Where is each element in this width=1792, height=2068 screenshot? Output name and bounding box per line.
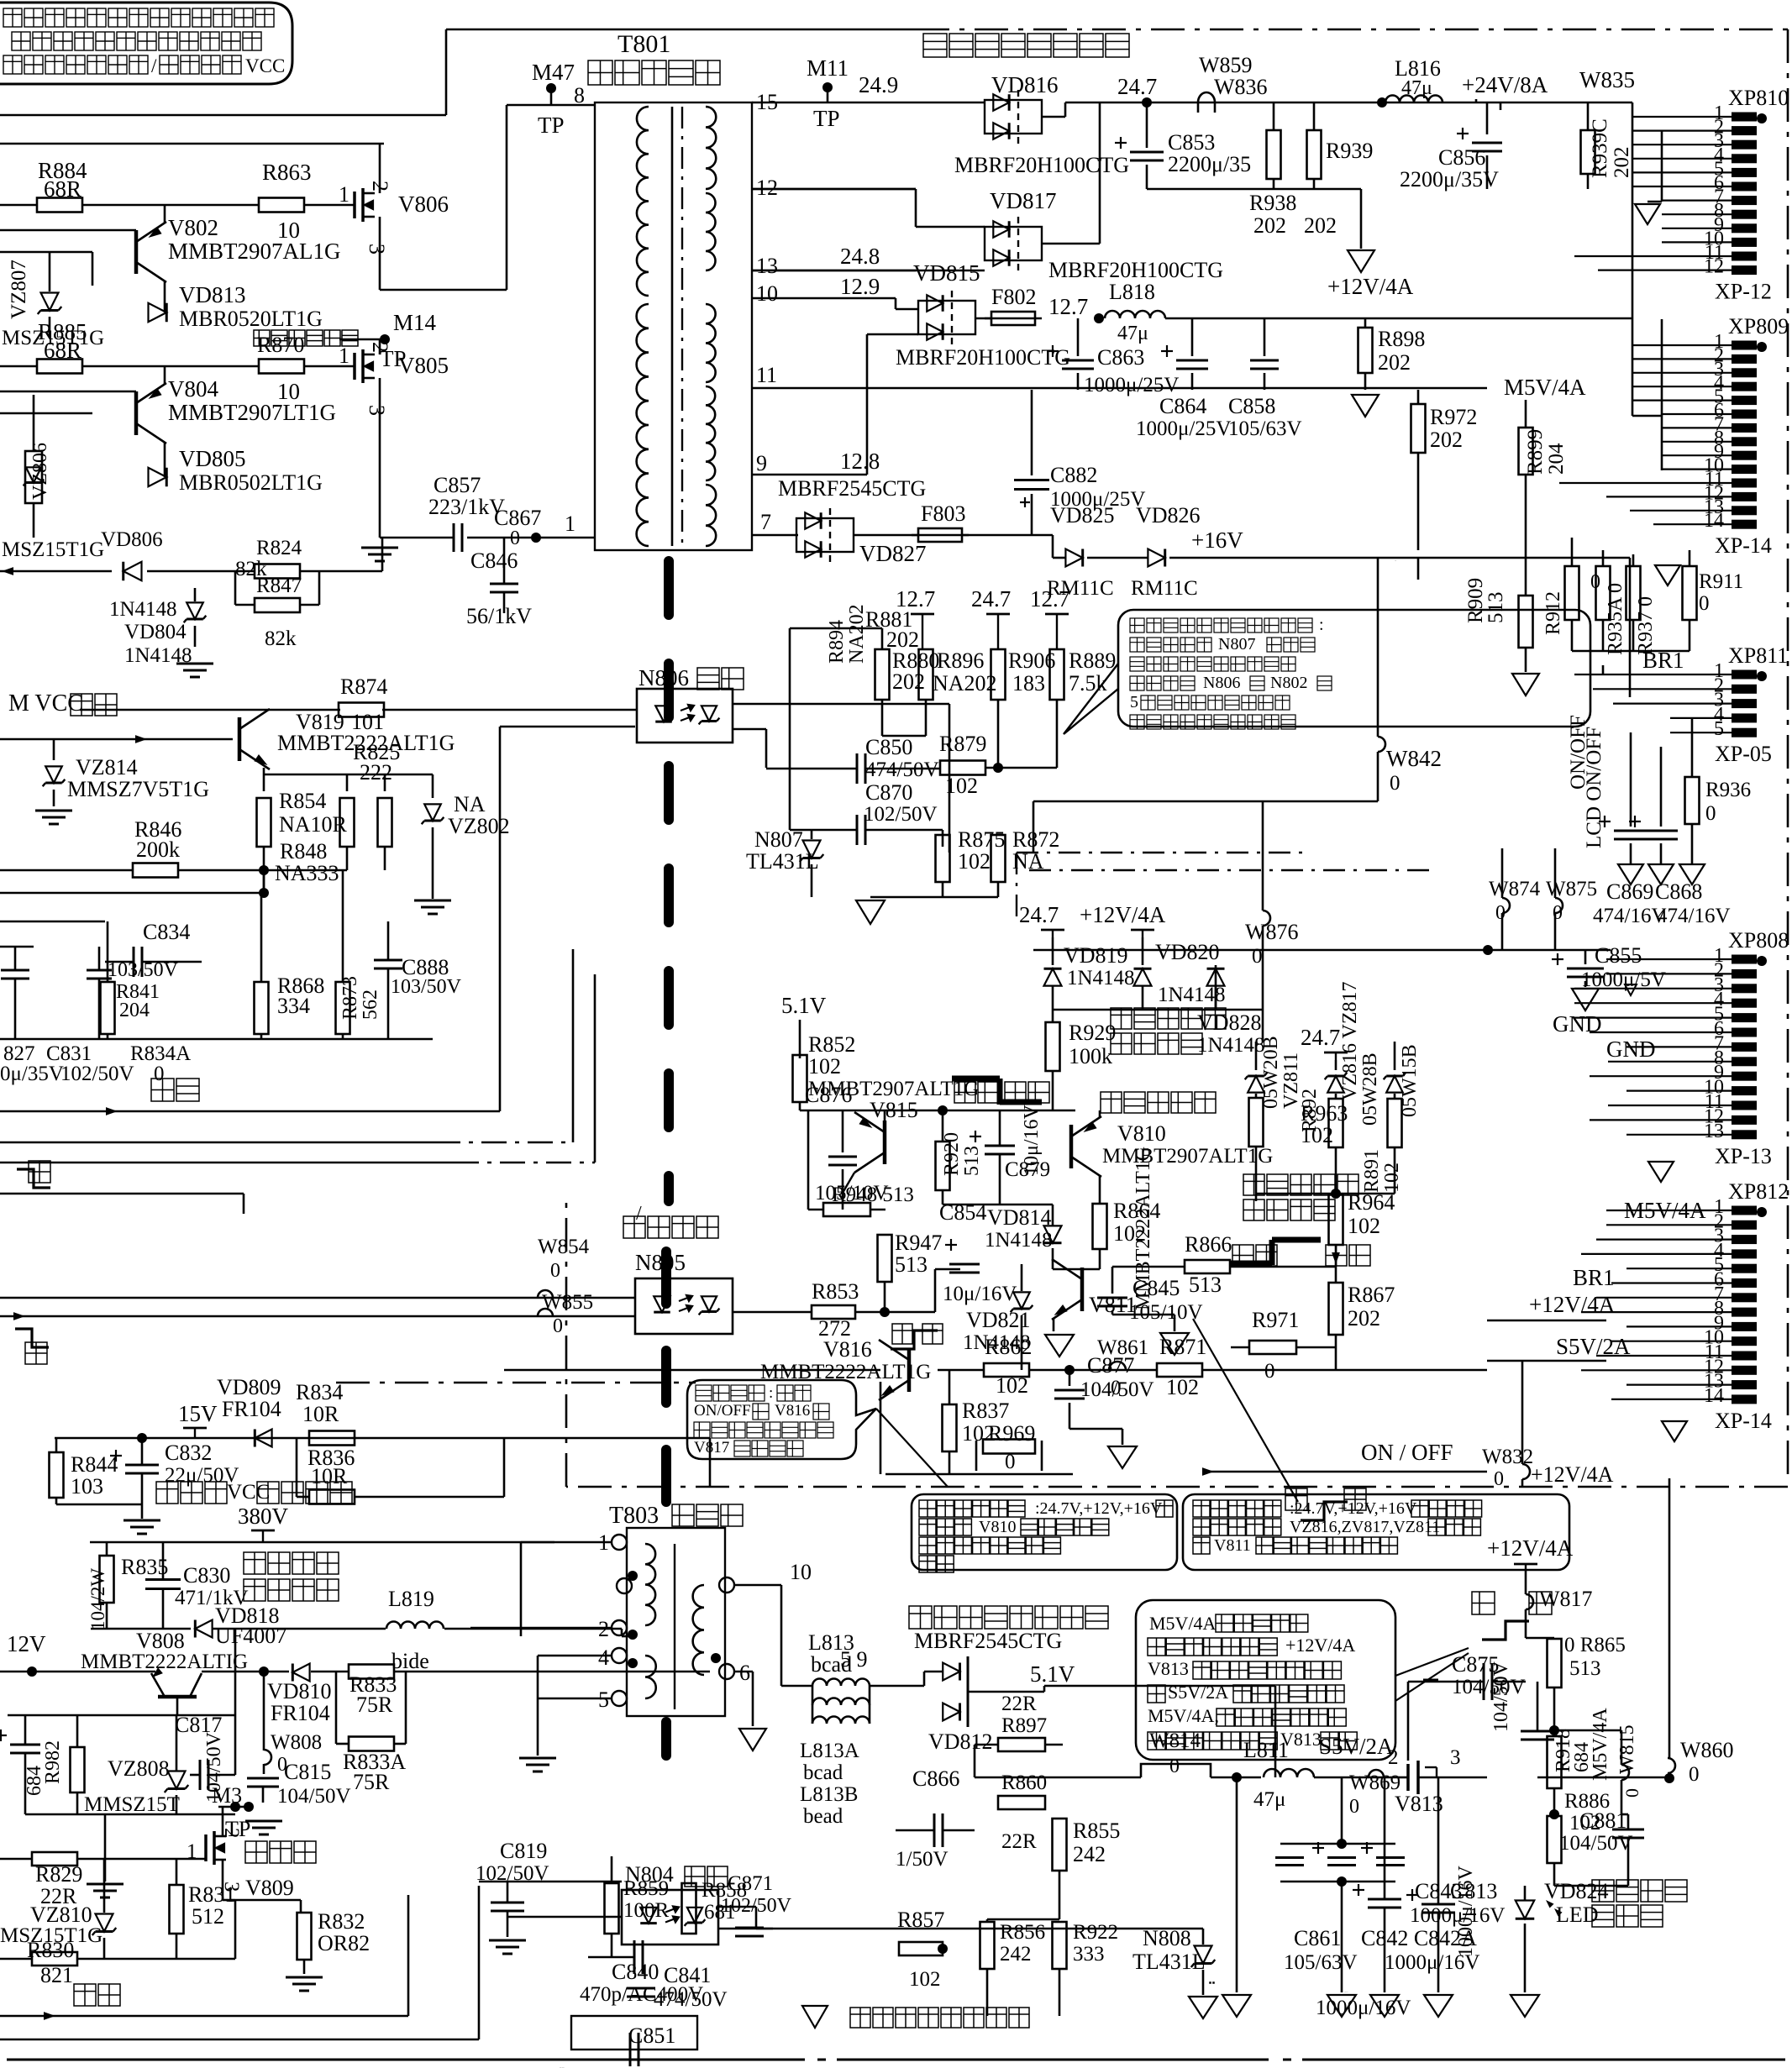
svg-text:VD809: VD809 <box>217 1375 281 1399</box>
svg-text:R872: R872 <box>1012 827 1059 852</box>
svg-text:104/50V: 104/50V <box>1490 1661 1512 1732</box>
svg-text:102/50V: 102/50V <box>864 803 938 826</box>
svg-text:MMSZ15T: MMSZ15T <box>84 1793 180 1816</box>
svg-text:M5V/4A: M5V/4A <box>1590 1708 1611 1781</box>
svg-text:103/50V: 103/50V <box>391 976 462 998</box>
svg-text:R936: R936 <box>1705 779 1751 801</box>
svg-text:R922: R922 <box>1073 1921 1118 1944</box>
svg-text:104/50V: 104/50V <box>277 1785 351 1808</box>
svg-text:C850: C850 <box>865 735 912 759</box>
svg-text:W836: W836 <box>1214 75 1268 99</box>
svg-text:5: 5 <box>598 1687 609 1712</box>
svg-text:14: 14 <box>1704 1385 1724 1407</box>
svg-text:VCC: VCC <box>245 55 285 76</box>
svg-text:S5V/2A: S5V/2A <box>1556 1334 1631 1359</box>
svg-text:C868: C868 <box>1655 879 1702 904</box>
svg-text:C856: C856 <box>1438 145 1485 170</box>
svg-text:1N4148: 1N4148 <box>1067 967 1135 989</box>
svg-text:1000μ/16V: 1000μ/16V <box>1344 1992 1348 1993</box>
svg-text:R892: R892 <box>1299 1089 1321 1132</box>
svg-text:513: 513 <box>895 1252 928 1277</box>
svg-text:242: 242 <box>1073 1842 1106 1866</box>
svg-text:M5V/4A: M5V/4A <box>1504 375 1586 400</box>
svg-text:M14: M14 <box>393 310 437 335</box>
svg-text:C863: C863 <box>1097 345 1144 370</box>
svg-text:474/50V: 474/50V <box>865 758 939 781</box>
svg-text:12.8: 12.8 <box>840 449 880 474</box>
svg-text:10μ/16V: 10μ/16V <box>1021 1104 1043 1176</box>
svg-text:3: 3 <box>365 244 389 255</box>
svg-text:204: 204 <box>1545 443 1568 475</box>
svg-text:R972: R972 <box>1430 405 1477 429</box>
svg-text:183: 183 <box>1012 671 1045 695</box>
svg-text:22R: 22R <box>1001 1693 1037 1715</box>
svg-text:14: 14 <box>1704 510 1724 532</box>
svg-text:C871: C871 <box>728 1872 773 1895</box>
svg-text:512: 512 <box>192 1904 224 1929</box>
svg-text:100R: 100R <box>623 1899 670 1922</box>
svg-text:ON/OFF: ON/OFF <box>694 1402 751 1420</box>
svg-text:M11: M11 <box>807 55 849 81</box>
svg-text:10μ/16V: 10μ/16V <box>943 1283 1017 1305</box>
svg-text:5.1V: 5.1V <box>1030 1661 1075 1687</box>
svg-text:513: 513 <box>1485 592 1507 624</box>
svg-text:VD820: VD820 <box>1155 940 1220 964</box>
svg-text:MBR0520LT1G: MBR0520LT1G <box>179 307 323 331</box>
svg-text:0: 0 <box>1494 1468 1504 1490</box>
svg-text::: : <box>769 1384 773 1402</box>
svg-text:N807: N807 <box>754 827 803 852</box>
svg-text:380V: 380V <box>238 1504 289 1529</box>
svg-text:V809: V809 <box>245 1876 294 1900</box>
svg-text:+12V/4A: +12V/4A <box>1080 902 1166 927</box>
svg-text:VD814: VD814 <box>987 1205 1052 1230</box>
svg-text:V802: V802 <box>168 215 218 240</box>
svg-text:N806: N806 <box>1203 674 1240 692</box>
svg-text::24.7V,+12V,+16V: :24.7V,+12V,+16V <box>1290 1499 1417 1518</box>
svg-text:R824: R824 <box>256 537 302 559</box>
svg-text:12V: 12V <box>7 1631 46 1656</box>
svg-text:104/50V: 104/50V <box>1559 1832 1633 1855</box>
svg-text:1000μ/25V: 1000μ/25V <box>1136 417 1231 440</box>
svg-text:R871: R871 <box>1159 1335 1206 1359</box>
svg-text:100k: 100k <box>1069 1044 1112 1068</box>
svg-text:102/50V: 102/50V <box>60 1063 134 1085</box>
svg-text:L813B: L813B <box>800 1783 858 1806</box>
svg-text:+16V: +16V <box>1191 527 1243 553</box>
svg-text:R894: R894 <box>826 620 848 664</box>
svg-text:N807: N807 <box>1218 635 1255 653</box>
svg-text:56/1kV: 56/1kV <box>466 604 532 628</box>
svg-text:+12V/4A: +12V/4A <box>1285 1635 1355 1656</box>
svg-text:V813: V813 <box>1395 1792 1443 1816</box>
svg-text:R866: R866 <box>1185 1232 1232 1257</box>
svg-text:334: 334 <box>277 994 310 1018</box>
svg-text:XP-05: XP-05 <box>1715 742 1772 766</box>
svg-text:R855: R855 <box>1073 1819 1120 1843</box>
svg-text:R909: R909 <box>1464 578 1487 623</box>
svg-text:C853: C853 <box>1168 130 1215 155</box>
svg-text:+12V/4A: +12V/4A <box>1487 1535 1574 1561</box>
svg-text:/: / <box>151 55 157 76</box>
svg-text:VCC: VCC <box>227 1481 270 1504</box>
svg-text:V806: V806 <box>398 192 449 217</box>
svg-text:V804: V804 <box>168 376 218 402</box>
svg-text:R937 0: R937 0 <box>1635 596 1657 655</box>
svg-text:103/50V: 103/50V <box>108 959 179 981</box>
svg-text:VZ808: VZ808 <box>108 1756 170 1781</box>
svg-text:821: 821 <box>40 1963 73 1987</box>
svg-text:VD819: VD819 <box>1064 943 1128 968</box>
svg-text:XP-14: XP-14 <box>1715 1409 1772 1433</box>
svg-text:C877: C877 <box>1087 1353 1134 1378</box>
svg-text:0: 0 <box>550 1260 560 1282</box>
svg-text:1N4148: 1N4148 <box>985 1229 1053 1252</box>
svg-text:LCD ON/OFF: LCD ON/OFF <box>1583 727 1605 848</box>
svg-text:R863: R863 <box>262 160 312 185</box>
svg-text:102: 102 <box>945 774 978 798</box>
svg-text:L819: L819 <box>388 1587 434 1611</box>
svg-text:L813: L813 <box>808 1630 854 1655</box>
svg-text:R867: R867 <box>1348 1283 1395 1307</box>
svg-text:VD827: VD827 <box>859 541 927 566</box>
svg-text:C857: C857 <box>434 473 481 497</box>
svg-text:R929: R929 <box>1069 1021 1116 1045</box>
svg-text:V805: V805 <box>398 353 449 378</box>
svg-text:R853: R853 <box>812 1279 859 1304</box>
svg-text:102/50V: 102/50V <box>721 1895 792 1917</box>
svg-text:S5V/2A: S5V/2A <box>1319 1734 1394 1759</box>
svg-text:102: 102 <box>996 1373 1028 1398</box>
svg-text:MBRF20H100CTG: MBRF20H100CTG <box>896 345 1070 370</box>
svg-text:2200μ/35V: 2200μ/35V <box>1400 167 1499 192</box>
svg-text:+12V/4A: +12V/4A <box>1529 1292 1616 1317</box>
svg-text:1N4148: 1N4148 <box>1197 1034 1265 1057</box>
svg-text:ON / OFF: ON / OFF <box>1361 1440 1453 1465</box>
svg-text:0: 0 <box>1705 802 1716 825</box>
svg-text:202: 202 <box>1253 213 1286 238</box>
svg-text:0: 0 <box>510 527 520 549</box>
svg-text:XP809: XP809 <box>1728 314 1789 339</box>
svg-text:C834: C834 <box>143 920 190 944</box>
svg-text:NA202: NA202 <box>933 671 997 695</box>
svg-text:V811: V811 <box>1214 1536 1251 1555</box>
svg-text:24.8: 24.8 <box>840 244 880 269</box>
svg-text:R899: R899 <box>1524 429 1547 475</box>
svg-text:W835: W835 <box>1579 67 1635 92</box>
svg-text:C854: C854 <box>939 1200 986 1225</box>
svg-text:242: 242 <box>1000 1943 1032 1966</box>
svg-text:12: 12 <box>756 176 778 200</box>
svg-text:8: 8 <box>574 83 585 108</box>
svg-text:W859: W859 <box>1199 53 1253 77</box>
svg-text:7: 7 <box>760 510 771 534</box>
svg-text:47μ: 47μ <box>1117 323 1148 344</box>
svg-text:RM11C: RM11C <box>1131 577 1198 600</box>
svg-text:/: / <box>636 1203 642 1225</box>
svg-text:10R: 10R <box>302 1402 339 1426</box>
svg-text:R912: R912 <box>1542 591 1564 635</box>
svg-text:R874: R874 <box>340 674 387 699</box>
svg-text:513: 513 <box>1569 1657 1601 1680</box>
svg-text:R939: R939 <box>1326 139 1373 163</box>
svg-text:BR1: BR1 <box>1573 1265 1615 1290</box>
svg-text:FR104: FR104 <box>271 1701 330 1725</box>
svg-text:474/16V: 474/16V <box>1593 905 1667 927</box>
svg-text:L813A: L813A <box>800 1740 859 1762</box>
svg-text:bcad: bcad <box>803 1761 843 1784</box>
svg-text:XP812: XP812 <box>1728 1179 1789 1204</box>
svg-text:W814: W814 <box>1149 1729 1201 1752</box>
svg-text:13: 13 <box>756 254 778 278</box>
svg-text:0: 0 <box>553 1315 563 1337</box>
svg-text:VD828: VD828 <box>1197 1010 1262 1035</box>
svg-text:VD826: VD826 <box>1136 503 1201 527</box>
svg-text:VD815: VD815 <box>913 260 980 286</box>
svg-text:MBRF2545CTG: MBRF2545CTG <box>914 1629 1062 1653</box>
svg-text:bcad: bcad <box>811 1652 852 1677</box>
svg-text:R898: R898 <box>1378 327 1425 351</box>
svg-text:0: 0 <box>1005 1451 1016 1473</box>
svg-text:C869: C869 <box>1606 879 1653 904</box>
svg-text:1: 1 <box>339 182 349 207</box>
svg-text:XP808: XP808 <box>1728 928 1789 953</box>
svg-text:MBRF20H100CTG: MBRF20H100CTG <box>954 153 1129 177</box>
svg-text:NA10R: NA10R <box>279 812 348 837</box>
svg-text:V810: V810 <box>1117 1121 1166 1146</box>
svg-text:2: 2 <box>598 1617 609 1641</box>
svg-text:513: 513 <box>961 1146 983 1176</box>
svg-text:102: 102 <box>909 1968 941 1991</box>
svg-text:1: 1 <box>339 344 349 368</box>
svg-text:GND: GND <box>1606 1037 1656 1062</box>
svg-text:R889: R889 <box>1069 648 1116 673</box>
svg-text:2200μ/35: 2200μ/35 <box>1168 152 1251 176</box>
svg-text:15V: 15V <box>178 1401 218 1426</box>
svg-text:1/50V: 1/50V <box>896 1848 949 1871</box>
svg-text:T801: T801 <box>617 30 670 58</box>
svg-text:13: 13 <box>1704 1121 1724 1142</box>
svg-text:684: 684 <box>24 1766 45 1796</box>
svg-text:V813: V813 <box>1148 1658 1189 1679</box>
svg-text:24.9: 24.9 <box>859 72 898 97</box>
svg-text:L818: L818 <box>1109 280 1155 304</box>
svg-text:N802: N802 <box>1270 674 1307 692</box>
svg-text:C882: C882 <box>1050 463 1097 487</box>
svg-text:W876: W876 <box>1245 920 1299 944</box>
svg-text:R969: R969 <box>988 1421 1035 1446</box>
svg-text:VD816: VD816 <box>991 72 1059 97</box>
svg-text:C815: C815 <box>284 1760 331 1784</box>
svg-text:R964: R964 <box>1348 1190 1395 1215</box>
svg-text:202: 202 <box>1348 1306 1380 1331</box>
svg-text:5: 5 <box>1714 718 1724 740</box>
svg-text:222: 222 <box>360 760 392 785</box>
svg-text:M5V/4A,: M5V/4A, <box>1148 1705 1219 1726</box>
svg-text:7.5k: 7.5k <box>1069 671 1107 695</box>
svg-text:V817: V817 <box>694 1439 729 1457</box>
svg-text:0: 0 <box>1590 571 1600 593</box>
svg-text:R837: R837 <box>962 1399 1009 1423</box>
svg-text:T803: T803 <box>609 1503 659 1529</box>
svg-text:0 R865: 0 R865 <box>1564 1634 1626 1656</box>
svg-text:474/50V: 474/50V <box>654 1988 728 2011</box>
svg-text:R911: R911 <box>1699 570 1743 593</box>
svg-text:R906: R906 <box>1008 648 1055 673</box>
svg-text:75R: 75R <box>353 1770 390 1794</box>
svg-text:3: 3 <box>365 405 389 416</box>
svg-text:W855: W855 <box>542 1291 593 1314</box>
svg-text:MBRF2545CTG: MBRF2545CTG <box>778 476 926 501</box>
svg-text:R939C: R939C <box>1589 118 1611 178</box>
svg-text:12.7: 12.7 <box>1030 586 1069 611</box>
svg-text:V808: V808 <box>136 1629 185 1653</box>
svg-text:F802: F802 <box>991 285 1036 309</box>
svg-text:C876: C876 <box>805 1083 852 1107</box>
svg-text:47μ: 47μ <box>1253 1788 1285 1811</box>
svg-text:0: 0 <box>1699 592 1710 615</box>
svg-text:1000μ/25V: 1000μ/25V <box>1084 374 1179 396</box>
svg-text:F803: F803 <box>921 501 965 526</box>
svg-text:R834: R834 <box>296 1380 343 1404</box>
svg-text:BR1: BR1 <box>1642 648 1684 673</box>
svg-text:VD805: VD805 <box>179 446 246 471</box>
svg-text:W854: W854 <box>538 1236 590 1258</box>
svg-text:102: 102 <box>1166 1375 1199 1399</box>
svg-text:105/63V: 105/63V <box>1228 417 1302 440</box>
svg-text:R854: R854 <box>279 789 326 813</box>
svg-text:827: 827 <box>3 1042 35 1065</box>
svg-text:24.7: 24.7 <box>1019 902 1059 927</box>
svg-text:104/2W: 104/2W <box>87 1568 108 1630</box>
svg-text:82k: 82k <box>265 627 297 650</box>
svg-text:C830: C830 <box>183 1563 230 1588</box>
svg-text:1N4148: 1N4148 <box>109 598 177 621</box>
svg-text:C846: C846 <box>470 548 518 573</box>
svg-text:R897: R897 <box>1001 1714 1047 1737</box>
svg-text:W817: W817 <box>1539 1587 1593 1611</box>
svg-text:C870: C870 <box>865 780 912 805</box>
svg-text:24.7: 24.7 <box>1301 1025 1340 1050</box>
svg-text:R920: R920 <box>941 1132 963 1176</box>
svg-text:R860: R860 <box>1001 1771 1047 1794</box>
svg-text:UF4007: UF4007 <box>215 1624 286 1648</box>
svg-text:75R: 75R <box>356 1693 393 1717</box>
svg-text:10: 10 <box>756 281 778 306</box>
svg-text:12.9: 12.9 <box>840 274 880 299</box>
svg-text:204: 204 <box>119 1000 150 1021</box>
svg-text:MMBT2222ALTIG: MMBT2222ALTIG <box>81 1651 248 1673</box>
svg-text:R834A: R834A <box>130 1042 191 1065</box>
svg-text:562: 562 <box>360 989 381 1020</box>
svg-text:333: 333 <box>1073 1943 1105 1966</box>
svg-text:202: 202 <box>1611 147 1633 179</box>
svg-text:103: 103 <box>71 1474 103 1499</box>
svg-text:XP-12: XP-12 <box>1715 280 1772 304</box>
svg-text:C841: C841 <box>664 1963 711 1987</box>
svg-text:FR104: FR104 <box>222 1397 281 1421</box>
svg-text:1000μ/16V: 1000μ/16V <box>1455 1865 1477 1957</box>
svg-text:0μ/35V: 0μ/35V <box>0 1063 64 1085</box>
svg-text:TP: TP <box>813 106 840 131</box>
svg-text:N805: N805 <box>635 1250 686 1275</box>
svg-text:C831: C831 <box>46 1042 92 1065</box>
svg-text:bide: bide <box>392 1649 429 1673</box>
svg-text:104/50V: 104/50V <box>1452 1676 1526 1698</box>
svg-text:68R: 68R <box>44 176 81 202</box>
svg-text:0: 0 <box>1252 945 1263 968</box>
svg-text:C832: C832 <box>165 1441 212 1465</box>
svg-text:C855: C855 <box>1595 943 1642 968</box>
svg-text:XP810: XP810 <box>1728 86 1789 110</box>
svg-text:N808: N808 <box>1143 1926 1191 1950</box>
svg-text:VD804: VD804 <box>124 621 187 643</box>
svg-text:TL431L: TL431L <box>1132 1950 1206 1974</box>
svg-text:R870: R870 <box>257 333 304 357</box>
svg-text:9: 9 <box>756 451 767 475</box>
svg-text:200k: 200k <box>136 837 180 862</box>
svg-text:C864: C864 <box>1159 394 1206 418</box>
svg-text:2: 2 <box>368 342 392 353</box>
svg-text:VZ816 VZ817: VZ816 VZ817 <box>1339 981 1361 1100</box>
svg-text::24.7V,+12V,+16V: :24.7V,+12V,+16V <box>1035 1499 1163 1518</box>
svg-text:R848: R848 <box>280 839 327 863</box>
svg-text:R830: R830 <box>27 1938 74 1962</box>
svg-text:VD817: VD817 <box>990 188 1057 213</box>
svg-text:VZ814: VZ814 <box>76 755 138 779</box>
svg-text:C867: C867 <box>494 506 541 530</box>
svg-text:0: 0 <box>1349 1796 1359 1818</box>
svg-text:47μ: 47μ <box>1401 77 1432 99</box>
svg-text:C851: C851 <box>628 2023 675 2048</box>
svg-text:102: 102 <box>1348 1214 1380 1238</box>
svg-text:NA333: NA333 <box>275 861 339 885</box>
svg-text:+12V/4A: +12V/4A <box>1327 274 1414 299</box>
svg-text:0: 0 <box>1689 1763 1700 1786</box>
svg-text:C819: C819 <box>500 1839 547 1863</box>
svg-text:S5V/2A: S5V/2A <box>1168 1682 1228 1703</box>
svg-text:5: 5 <box>1130 693 1138 711</box>
svg-text:+24V/8A: +24V/8A <box>1462 72 1548 97</box>
svg-text:0: 0 <box>1390 772 1400 795</box>
svg-text:VD810: VD810 <box>267 1679 332 1703</box>
svg-text:W808: W808 <box>271 1731 322 1754</box>
svg-text:TP: TP <box>538 113 565 138</box>
svg-text:R862: R862 <box>985 1335 1032 1359</box>
svg-text:202: 202 <box>1430 428 1463 452</box>
svg-text:VD825: VD825 <box>1050 503 1115 527</box>
svg-text:11: 11 <box>756 363 777 387</box>
svg-text:MMBT2222ALT1G: MMBT2222ALT1G <box>1132 1147 1154 1310</box>
svg-text:VZ807: VZ807 <box>8 260 30 319</box>
svg-text:VZ806: VZ806 <box>29 443 51 500</box>
svg-text:104/50V: 104/50V <box>1080 1378 1154 1401</box>
svg-text:2: 2 <box>368 181 392 192</box>
svg-text:2: 2 <box>1388 1746 1399 1769</box>
svg-text:C858: C858 <box>1228 394 1275 418</box>
svg-text:1000μ/16V: 1000μ/16V <box>1316 1997 1411 2019</box>
svg-text:XP-14: XP-14 <box>1715 533 1772 558</box>
svg-text:VD813: VD813 <box>179 282 246 307</box>
svg-text:OR82: OR82 <box>318 1931 370 1955</box>
svg-text:R859: R859 <box>623 1877 669 1900</box>
svg-text:5.1V: 5.1V <box>781 993 827 1018</box>
svg-text:R829: R829 <box>35 1862 82 1887</box>
svg-text:NA: NA <box>454 792 486 816</box>
svg-text:R948 513: R948 513 <box>832 1184 914 1206</box>
svg-text:202: 202 <box>892 669 925 694</box>
svg-text:MMBT2907ALT1G: MMBT2907ALT1G <box>1102 1145 1273 1168</box>
